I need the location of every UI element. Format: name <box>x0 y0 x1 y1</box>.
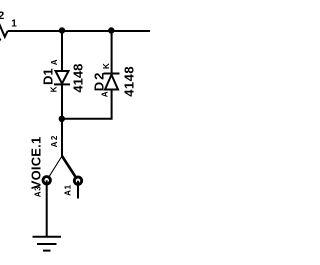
resistor R1 (partially off-canvas left) <box>0 22 8 37</box>
svg-text:4148: 4148 <box>121 66 136 97</box>
wire: D2 anode drop and bottom link to node <box>62 90 112 119</box>
svg-text:K: K <box>50 86 59 92</box>
junction dot at D2 top <box>108 27 114 33</box>
ground symbol <box>33 237 62 251</box>
switch S1 pole lever (thick) <box>62 156 75 177</box>
switch contact circle A3 <box>43 177 50 184</box>
wire: D1 cathode drop <box>61 84 63 118</box>
svg-text:1: 1 <box>11 19 17 30</box>
svg-text:A2: A2 <box>50 134 59 147</box>
switch S1 throw line (open, thin) <box>49 156 62 176</box>
svg-text:D2: D2 <box>91 71 106 92</box>
diode D2 <box>104 74 120 90</box>
svg-text:A1: A1 <box>64 184 73 196</box>
svg-text:D1: D1 <box>40 68 55 85</box>
svg-text:VOICE.1: VOICE.1 <box>28 137 43 190</box>
svg-text:4148: 4148 <box>70 64 85 93</box>
wire: D2 cathode drop <box>111 31 113 74</box>
wire: D1 anode drop <box>61 31 63 71</box>
switch contact circle A1 <box>74 177 81 184</box>
svg-text:A: A <box>50 59 59 65</box>
junction dot at D1 top <box>59 27 65 33</box>
resistor clipped zigzag sliver <box>0 39 1 43</box>
wire: main horizontal net <box>8 30 150 32</box>
wire: A1 contact stub <box>77 181 79 199</box>
wire: node down to switch common <box>61 119 63 156</box>
svg-text:K: K <box>102 63 111 69</box>
junction dot at node below D1 <box>59 116 65 122</box>
svg-text:A3: A3 <box>34 185 43 197</box>
svg-text:2: 2 <box>0 10 4 22</box>
wire: A3 contact to ground <box>46 180 48 236</box>
diode D1 <box>54 71 70 84</box>
